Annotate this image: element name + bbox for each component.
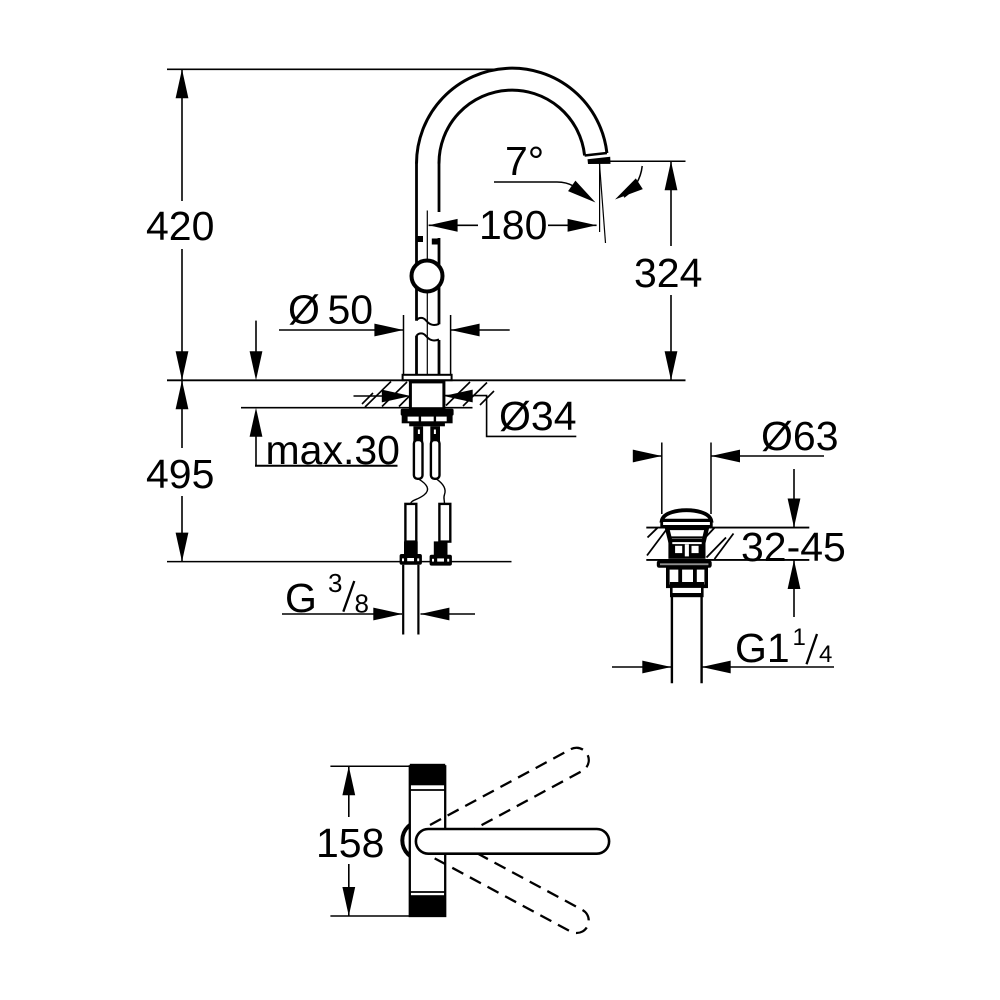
hose end tube right: [439, 504, 450, 542]
324 top reference line: [610, 160, 686, 162]
dimension D50 extension lines: [403, 315, 405, 375]
spout aerator tip band: [588, 157, 611, 164]
dashed handle up: [430, 743, 593, 846]
fitting neck left: [404, 541, 418, 554]
svg-text:324: 324: [634, 250, 702, 296]
svg-text:50: 50: [328, 287, 374, 333]
joint notch right: [432, 239, 439, 245]
spout outer arc: [417, 68, 607, 163]
handle knob circle: [412, 261, 443, 292]
dimension 180: [429, 224, 478, 226]
centerline: [426, 211, 428, 376]
svg-text:Ø: Ø: [288, 287, 320, 333]
max.30 shelf line: [255, 465, 398, 467]
drain body with windows: [668, 540, 705, 559]
dimension 324 line: [670, 161, 672, 246]
dimension 158: [348, 766, 350, 817]
locknut body: [403, 416, 452, 423]
svg-text:Ø34: Ø34: [499, 393, 577, 439]
hose tube right: [431, 440, 440, 479]
svg-text:8: 8: [355, 589, 369, 619]
top view body bar: [410, 766, 445, 916]
drain cap dome: [662, 510, 711, 520]
svg-text:420: 420: [146, 203, 214, 249]
7 deg vertical reference line: [599, 162, 601, 233]
7 deg leader: [494, 182, 588, 197]
hose connector left: [413, 426, 423, 441]
swivel circle: [402, 821, 441, 860]
svg-text:Ø63: Ø63: [761, 413, 839, 459]
pipe break wave lower: [417, 333, 440, 340]
spout inner arc: [439, 90, 585, 163]
dimension G3/8: [282, 613, 402, 615]
pipe left line: [415, 163, 418, 321]
drain washer: [657, 560, 712, 568]
drain deck hatching left: [647, 528, 667, 556]
bottom reference line (hose ends): [167, 561, 512, 563]
locknut black band: [401, 409, 454, 416]
dimension D34 arrows: [354, 395, 383, 397]
D34 leader: [444, 396, 577, 437]
max.30 underside line: [241, 407, 473, 409]
hose tube left: [414, 440, 423, 479]
hose curve right: [436, 479, 445, 504]
svg-text:7°: 7°: [505, 138, 544, 184]
dimension D50: [279, 329, 403, 331]
drain ring: [671, 587, 702, 596]
dimension D63: [633, 455, 662, 457]
svg-text:180: 180: [479, 202, 547, 248]
fitting cap left: [400, 554, 422, 565]
fitting cap right: [430, 555, 452, 566]
lower black band: [409, 422, 445, 426]
dashed handle down: [430, 834, 593, 937]
dimension 495 line: [181, 380, 183, 448]
dimension 32-45: [793, 469, 795, 527]
svg-text:4: 4: [819, 641, 832, 668]
supply pipe below: [402, 565, 404, 635]
fitting neck right: [434, 541, 448, 555]
drain neck: [667, 528, 707, 541]
svg-text:max.30: max.30: [266, 427, 400, 473]
spout aerator face: [585, 153, 607, 156]
D63 extension lines: [661, 443, 663, 515]
hose end tube left: [405, 504, 416, 542]
deck line: [167, 379, 686, 381]
svg-text:3: 3: [328, 568, 342, 598]
handle lever: [416, 829, 609, 854]
countertop hatching right: [446, 382, 494, 406]
7 deg tilted line: [599, 162, 605, 244]
svg-text:32-45: 32-45: [741, 524, 846, 570]
mounting shank: [410, 382, 444, 409]
dimension 420 line: [181, 69, 183, 201]
svg-text:1: 1: [793, 624, 806, 651]
hose connector right: [430, 426, 440, 441]
top view extension lines: [330, 765, 445, 767]
svg-text:495: 495: [146, 451, 214, 497]
svg-text:G1: G1: [735, 625, 790, 671]
drain tailpipe: [671, 596, 673, 683]
top extension line: [167, 68, 497, 70]
pipe break wave upper: [417, 318, 440, 325]
countertop hatching left: [362, 382, 410, 408]
svg-text:158: 158: [316, 820, 384, 866]
max.30 dimension arrows: [255, 321, 257, 352]
drain deck bottom line: [646, 559, 809, 561]
7 deg angle arc: [624, 166, 642, 197]
drain deck hatching right: [706, 528, 734, 559]
drain nut: [668, 568, 706, 587]
dimension G1 1/4: [612, 666, 671, 668]
joint notch left: [417, 236, 424, 242]
drain cap rim: [662, 521, 712, 527]
drain deck top line: [646, 527, 809, 529]
svg-text:G: G: [285, 575, 317, 621]
hose curve left: [410, 479, 427, 505]
base plate: [403, 375, 452, 380]
pipe right line: [438, 163, 441, 212]
